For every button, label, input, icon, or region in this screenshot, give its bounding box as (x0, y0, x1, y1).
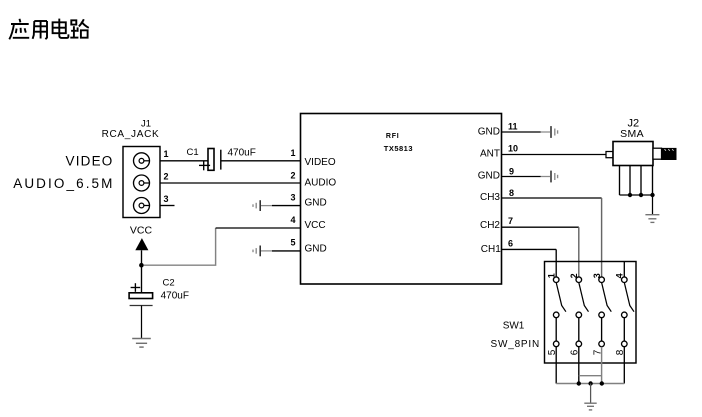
U1 pin number 10 (508, 144, 518, 154)
svg-text:VCC: VCC (305, 220, 326, 231)
svg-text:GND: GND (305, 243, 327, 254)
J1 pin number 3 (164, 194, 169, 204)
SW1 pin number 3 (592, 273, 602, 278)
svg-text:1: 1 (290, 148, 295, 158)
SW1 switch element 1 (pins 1/5) (553, 277, 566, 384)
SW1 bottom ground bus (gray) (556, 376, 624, 384)
ground at U1 pin 3 (253, 200, 272, 211)
svg-text:3: 3 (164, 194, 169, 204)
svg-text:1: 1 (547, 273, 557, 278)
svg-text:SW_8PIN: SW_8PIN (491, 339, 541, 350)
U1 pin number 4 (290, 215, 295, 225)
wire CH3 to SW1 col3 (502, 198, 602, 277)
SW1 switch element 3 (pins 3/7) (599, 277, 612, 384)
SW1 pin number 7 (592, 349, 603, 355)
svg-text:470uF: 470uF (228, 147, 256, 158)
wire U1 pin 3 stub (272, 205, 301, 207)
U1 pin number 7 (508, 216, 513, 226)
wire VCC node to IC VCC pin (gray route) (144, 228, 216, 265)
SW1 switch element 4 (pins 4/8) (622, 262, 635, 384)
U1 pin number 5 (290, 238, 295, 248)
svg-text:4: 4 (290, 215, 295, 225)
wire J1.2 to IC AUDIO (160, 182, 301, 184)
SW1 pin number 6 (570, 349, 581, 355)
svg-text:9: 9 (509, 167, 514, 177)
svg-text:CH1: CH1 (481, 244, 501, 255)
svg-text:2: 2 (569, 273, 579, 278)
U1 pin name CH3 (480, 192, 500, 203)
J2 label (627, 117, 639, 129)
wire IC VCC pin stub (216, 227, 301, 229)
svg-text:TX5813: TX5813 (384, 144, 413, 153)
wire C1 to IC VIDEO (221, 160, 301, 162)
J1 jack symbol pin 2 (134, 175, 150, 191)
svg-text:GND: GND (478, 171, 500, 182)
ground below SW1 (584, 403, 596, 410)
U1 value TX5813 (384, 144, 413, 153)
SW1 switch element 2 (pins 2/6) (576, 277, 589, 384)
svg-text:4: 4 (615, 273, 625, 278)
svg-text:VIDEO: VIDEO (305, 157, 336, 168)
svg-text:GND: GND (305, 198, 327, 209)
U1 pin name GND (3) (305, 198, 327, 209)
U1 pin name VIDEO (305, 157, 336, 168)
J1 pin number 2 (164, 171, 169, 181)
U1 pin name VCC (305, 220, 326, 231)
svg-text:10: 10 (508, 144, 518, 154)
junction dots on J2 ground bus (628, 193, 655, 197)
svg-text:CH2: CH2 (480, 220, 500, 231)
SW1 label (503, 321, 525, 332)
C2 value 470uF (161, 290, 189, 301)
connector J2 SMA (606, 142, 676, 166)
ground at U1 pin 11 (541, 126, 558, 138)
SW1 value SW_8PIN (491, 339, 541, 350)
svg-text:7: 7 (508, 216, 513, 226)
svg-text:VIDEO: VIDEO (65, 153, 113, 168)
svg-text:SW1: SW1 (503, 321, 525, 332)
svg-text:3: 3 (290, 192, 295, 202)
U1 pin number 8 (509, 188, 514, 198)
U1 pin name ANT (480, 148, 500, 159)
junction dots on SW1 bus (577, 381, 604, 385)
ground below C2 (132, 339, 151, 348)
power symbol VCC arrow (135, 238, 148, 265)
J1 pin number 1 (164, 149, 169, 159)
ground at U1 pin 9 (541, 171, 558, 183)
J2 value SMA (620, 128, 644, 140)
U1 pin number 3 (290, 192, 295, 202)
svg-text:J1: J1 (141, 119, 151, 130)
svg-text:8: 8 (615, 349, 626, 355)
net label AUDIO_6.5M (13, 176, 114, 191)
ground below J2 (645, 215, 659, 223)
svg-text:2: 2 (290, 171, 295, 181)
wire U1 pin 11 stub (502, 131, 541, 133)
net label VIDEO (65, 153, 113, 168)
svg-text:CH3: CH3 (480, 192, 500, 203)
J1 label (141, 119, 151, 130)
svg-text:RCA_JACK: RCA_JACK (102, 129, 160, 140)
U1 pin name CH2 (480, 220, 500, 231)
SW1 pin number 4 (615, 273, 625, 278)
J1 jack symbol pin 3 (134, 198, 150, 214)
svg-text:2: 2 (164, 171, 169, 181)
J1 jack symbol pin 1 (134, 153, 150, 169)
svg-text:6: 6 (570, 349, 581, 355)
wire SW1 bus to ground (590, 384, 592, 403)
VCC label (130, 224, 153, 236)
U1 pin number 9 (509, 167, 514, 177)
svg-text:SMA: SMA (620, 128, 644, 140)
svg-text:AUDIO: AUDIO (305, 177, 337, 188)
U1 pin name GND (11) (478, 126, 500, 137)
svg-text:470uF: 470uF (161, 290, 189, 301)
title 应用电路 (hand-drawn CJK strokes) (9, 19, 89, 40)
svg-text:7: 7 (592, 349, 603, 355)
junction node VCC (139, 263, 144, 268)
svg-text:C2: C2 (163, 277, 175, 288)
SW1 pin number 8 (615, 349, 626, 355)
svg-text:8: 8 (509, 188, 514, 198)
switch SW1 body (545, 262, 637, 364)
wire U1 pin 5 stub (272, 250, 301, 252)
wire J1.3 stub (160, 205, 175, 207)
wire CH1 to SW1 col1 (502, 249, 557, 277)
SW1 pin number 1 (547, 273, 557, 278)
wire J1.1 to C1 (160, 160, 208, 162)
capacitor C2 (129, 267, 153, 339)
svg-text:RFI: RFI (386, 133, 400, 140)
C1 label (187, 147, 199, 158)
wire CH2 to SW1 col2 (502, 227, 579, 277)
svg-text:VCC: VCC (130, 224, 153, 236)
ground at U1 pin 5 (253, 246, 272, 257)
U1 pin name GND (9) (478, 171, 500, 182)
U1 pin number 1 (290, 148, 295, 158)
U1 pin name AUDIO (305, 177, 337, 188)
svg-text:1: 1 (164, 149, 169, 159)
U1 pin number 11 (508, 122, 518, 132)
connector J1 RCA_JACK body (123, 147, 160, 218)
svg-text:5: 5 (290, 238, 295, 248)
U1 name RFI (386, 133, 400, 140)
svg-text:C1: C1 (187, 147, 199, 158)
U1 pin number 2 (290, 171, 295, 181)
wire ANT to J2 (502, 154, 607, 156)
wire J2 bus to ground (652, 195, 654, 214)
svg-text:11: 11 (508, 122, 518, 132)
U1 pin number 6 (508, 239, 513, 249)
IC U1 RFI TX5813 body (301, 114, 502, 285)
svg-text:AUDIO_6.5M: AUDIO_6.5M (13, 176, 114, 191)
svg-text:GND: GND (478, 126, 500, 137)
svg-text:5: 5 (547, 349, 558, 355)
svg-text:6: 6 (508, 239, 513, 249)
U1 pin name GND (5) (305, 243, 327, 254)
C2 label (163, 277, 175, 288)
U1 pin name CH1 (481, 244, 501, 255)
capacitor C1 (199, 149, 221, 171)
SW1 pin number 2 (569, 273, 579, 278)
svg-text:3: 3 (592, 273, 602, 278)
wire U1 pin 9 stub (502, 176, 541, 178)
J2 shield pins to ground bus (620, 166, 653, 196)
SW1 pin number 5 (547, 349, 558, 355)
C1 value 470uF (228, 147, 256, 158)
J1 value RCA_JACK (102, 129, 160, 140)
svg-text:ANT: ANT (480, 148, 500, 159)
